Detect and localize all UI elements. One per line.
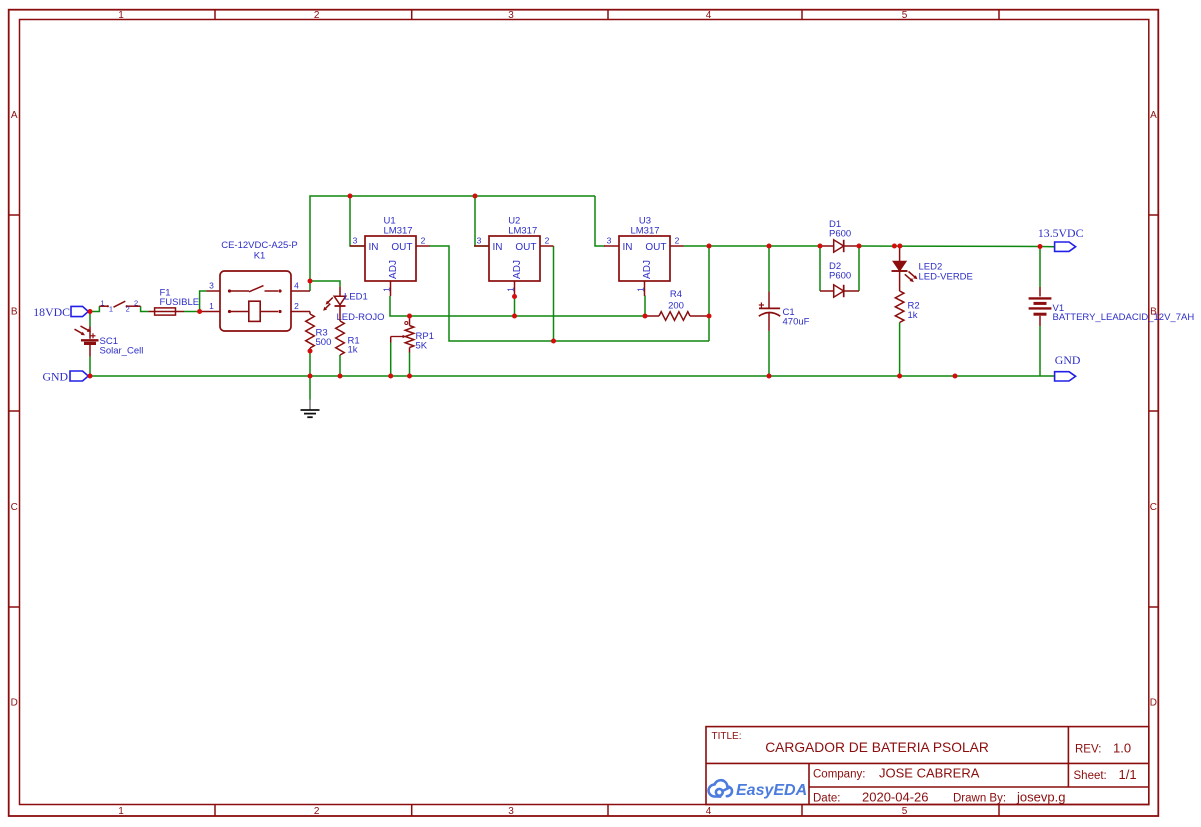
wire: [899, 323, 901, 377]
junction: [767, 244, 772, 249]
svg-text:GND: GND: [42, 370, 68, 384]
relay K1: [200, 240, 310, 331]
wire: [1039, 326, 1041, 376]
junction: [818, 244, 823, 249]
svg-text:Drawn By:: Drawn By:: [953, 793, 1006, 805]
svg-text:2: 2: [126, 305, 130, 314]
diode D1: [820, 219, 859, 252]
svg-text:LED1: LED1: [344, 292, 368, 303]
svg-text:1: 1: [118, 806, 124, 817]
port GND left: [42, 370, 88, 384]
svg-text:BATTERY_LEADACID_12V_7AH: BATTERY_LEADACID_12V_7AH: [1053, 312, 1195, 323]
svg-text:K1: K1: [254, 251, 266, 262]
junction: [308, 349, 313, 354]
svg-text:3: 3: [508, 10, 514, 21]
junction: [348, 194, 353, 199]
svg-text:3: 3: [353, 235, 358, 245]
fuse F1: [149, 287, 200, 315]
junction: [197, 309, 202, 314]
junction: [88, 374, 93, 379]
wire: [141, 306, 149, 311]
LED LED1: [323, 287, 384, 323]
resistor R1: [336, 305, 360, 356]
junction: [897, 374, 902, 379]
diode D2: [820, 261, 859, 297]
LED LED2: [892, 246, 973, 291]
solar cell SC1: [75, 326, 144, 357]
wire: [684, 245, 821, 247]
wire: [339, 355, 341, 376]
svg-text:REV:: REV:: [1075, 744, 1101, 756]
svg-text:1: 1: [100, 298, 104, 307]
junction: [88, 309, 93, 314]
wire: [1039, 247, 1041, 288]
wire: [310, 281, 340, 287]
svg-text:C: C: [1150, 502, 1157, 513]
svg-text:A: A: [1150, 110, 1157, 121]
junction: [388, 374, 393, 379]
svg-text:CE-12VDC-A25-P: CE-12VDC-A25-P: [221, 240, 298, 251]
svg-text:IN: IN: [369, 242, 379, 253]
junction: [707, 314, 712, 319]
wire: [89, 312, 91, 327]
wire: [310, 196, 595, 291]
wire: [708, 246, 710, 341]
svg-text:R4: R4: [670, 289, 682, 300]
wire: [858, 246, 860, 291]
wire: [309, 351, 311, 400]
svg-text:1: 1: [209, 301, 214, 311]
svg-text:1/1: 1/1: [1119, 767, 1137, 782]
svg-text:P600: P600: [829, 229, 851, 240]
port GND right: [1055, 353, 1081, 381]
junction: [767, 374, 772, 379]
svg-text:18VDC: 18VDC: [33, 305, 70, 319]
svg-text:4: 4: [294, 281, 299, 291]
op-amp regulator U3 LM317: [604, 216, 684, 297]
junction: [338, 374, 343, 379]
wire: [409, 353, 411, 377]
wire: [644, 296, 646, 317]
svg-text:GND: GND: [1055, 353, 1081, 367]
junction: [897, 244, 902, 249]
svg-text:2: 2: [675, 235, 680, 245]
resistor R4: [646, 289, 709, 320]
wire: [819, 246, 821, 291]
wire: [390, 296, 646, 316]
ground: [301, 400, 320, 418]
svg-text:3: 3: [209, 281, 214, 291]
svg-text:1: 1: [381, 287, 391, 292]
svg-text:3: 3: [508, 806, 514, 817]
wire: [768, 246, 770, 292]
wire: [350, 196, 365, 246]
svg-text:FUSIBLE: FUSIBLE: [160, 297, 200, 308]
junction: [473, 194, 478, 199]
svg-text:5: 5: [902, 806, 908, 817]
junction: [308, 279, 313, 284]
svg-text:13.5VDC: 13.5VDC: [1038, 226, 1084, 240]
svg-text:D: D: [11, 698, 18, 709]
junction: [643, 314, 648, 319]
port 13.5VDC: [1038, 226, 1084, 251]
svg-text:3: 3: [607, 235, 612, 245]
svg-text:IN: IN: [493, 242, 503, 253]
svg-text:Solar_Cell: Solar_Cell: [100, 345, 144, 356]
svg-text:3: 3: [477, 235, 482, 245]
junction: [892, 244, 897, 249]
svg-text:200: 200: [668, 301, 684, 312]
potentiometer RP1: [391, 316, 434, 353]
wire: [200, 291, 207, 312]
wire: [859, 245, 1055, 248]
junction: [308, 374, 313, 379]
svg-text:josevp.g: josevp.g: [1016, 790, 1065, 805]
junction: [1038, 244, 1043, 249]
svg-text:Sheet:: Sheet:: [1074, 770, 1107, 782]
switch S1: [99, 298, 140, 313]
svg-text:EasyEDA: EasyEDA: [736, 782, 807, 799]
svg-text:2: 2: [134, 298, 138, 307]
capacitor C1: [759, 292, 810, 331]
op-amp regulator U1 LM317: [350, 216, 430, 297]
svg-text:4: 4: [706, 806, 712, 817]
op-amp regulator U2 LM317: [474, 216, 554, 297]
svg-text:2: 2: [421, 235, 426, 245]
svg-text:Company:: Company:: [813, 769, 865, 781]
svg-text:470uF: 470uF: [783, 317, 810, 328]
junction: [953, 374, 958, 379]
svg-text:A: A: [11, 110, 18, 121]
battery V1: [1029, 287, 1195, 326]
junction: [707, 244, 712, 249]
wire: [514, 297, 516, 317]
junction: [551, 339, 556, 344]
svg-text:B: B: [11, 307, 18, 318]
svg-text:1: 1: [635, 287, 645, 292]
svg-text:2: 2: [314, 806, 320, 817]
resistor R3: [306, 312, 332, 352]
svg-text:ADJ: ADJ: [512, 260, 523, 279]
svg-text:TITLE:: TITLE:: [712, 731, 742, 742]
svg-text:1: 1: [109, 305, 113, 314]
svg-text:LM317: LM317: [630, 225, 659, 236]
svg-text:OUT: OUT: [515, 242, 536, 253]
svg-text:Date:: Date:: [813, 793, 841, 805]
junction: [407, 314, 412, 319]
svg-text:ADJ: ADJ: [642, 260, 653, 279]
svg-text:5K: 5K: [416, 340, 428, 351]
junction: [512, 294, 517, 299]
svg-text:5: 5: [902, 10, 908, 21]
svg-text:2: 2: [294, 301, 299, 311]
svg-text:1k: 1k: [908, 310, 918, 321]
svg-text:ADJ: ADJ: [388, 260, 399, 279]
svg-text:LED-VERDE: LED-VERDE: [919, 271, 973, 282]
title block: [706, 727, 1149, 805]
svg-text:2: 2: [314, 10, 320, 21]
junction: [857, 244, 862, 249]
svg-text:LM317: LM317: [508, 225, 537, 236]
wire: [184, 311, 200, 313]
wire: [89, 357, 91, 377]
wire: [429, 246, 709, 341]
port 18VDC: [33, 305, 88, 319]
svg-text:1.0: 1.0: [1113, 741, 1131, 756]
wire: [595, 196, 605, 246]
svg-text:1: 1: [505, 287, 515, 292]
svg-text:IN: IN: [623, 242, 633, 253]
svg-text:P600: P600: [829, 270, 851, 281]
wire: [475, 196, 489, 246]
svg-text:CARGADOR DE BATERIA PSOLAR: CARGADOR DE BATERIA PSOLAR: [765, 740, 989, 755]
svg-text:4: 4: [706, 10, 712, 21]
wire: [90, 375, 1055, 377]
svg-text:2020-04-26: 2020-04-26: [862, 790, 929, 805]
svg-text:2: 2: [545, 235, 550, 245]
wire: [768, 331, 770, 376]
svg-text:C: C: [11, 502, 18, 513]
wire: [90, 306, 99, 311]
svg-text:LED-ROJO: LED-ROJO: [337, 312, 385, 323]
wire: [553, 246, 555, 341]
wire: [390, 343, 392, 377]
svg-text:D: D: [1150, 698, 1157, 709]
svg-text:OUT: OUT: [645, 242, 666, 253]
svg-text:1: 1: [118, 10, 124, 21]
resistor R2: [895, 291, 919, 323]
svg-text:JOSE CABRERA: JOSE CABRERA: [879, 766, 980, 781]
EasyEDA logo: [709, 780, 808, 799]
svg-text:LM317: LM317: [384, 225, 413, 236]
svg-text:OUT: OUT: [391, 242, 412, 253]
svg-text:500: 500: [316, 337, 332, 348]
junction: [512, 314, 517, 319]
svg-text:1k: 1k: [348, 345, 358, 356]
junction: [407, 374, 412, 379]
